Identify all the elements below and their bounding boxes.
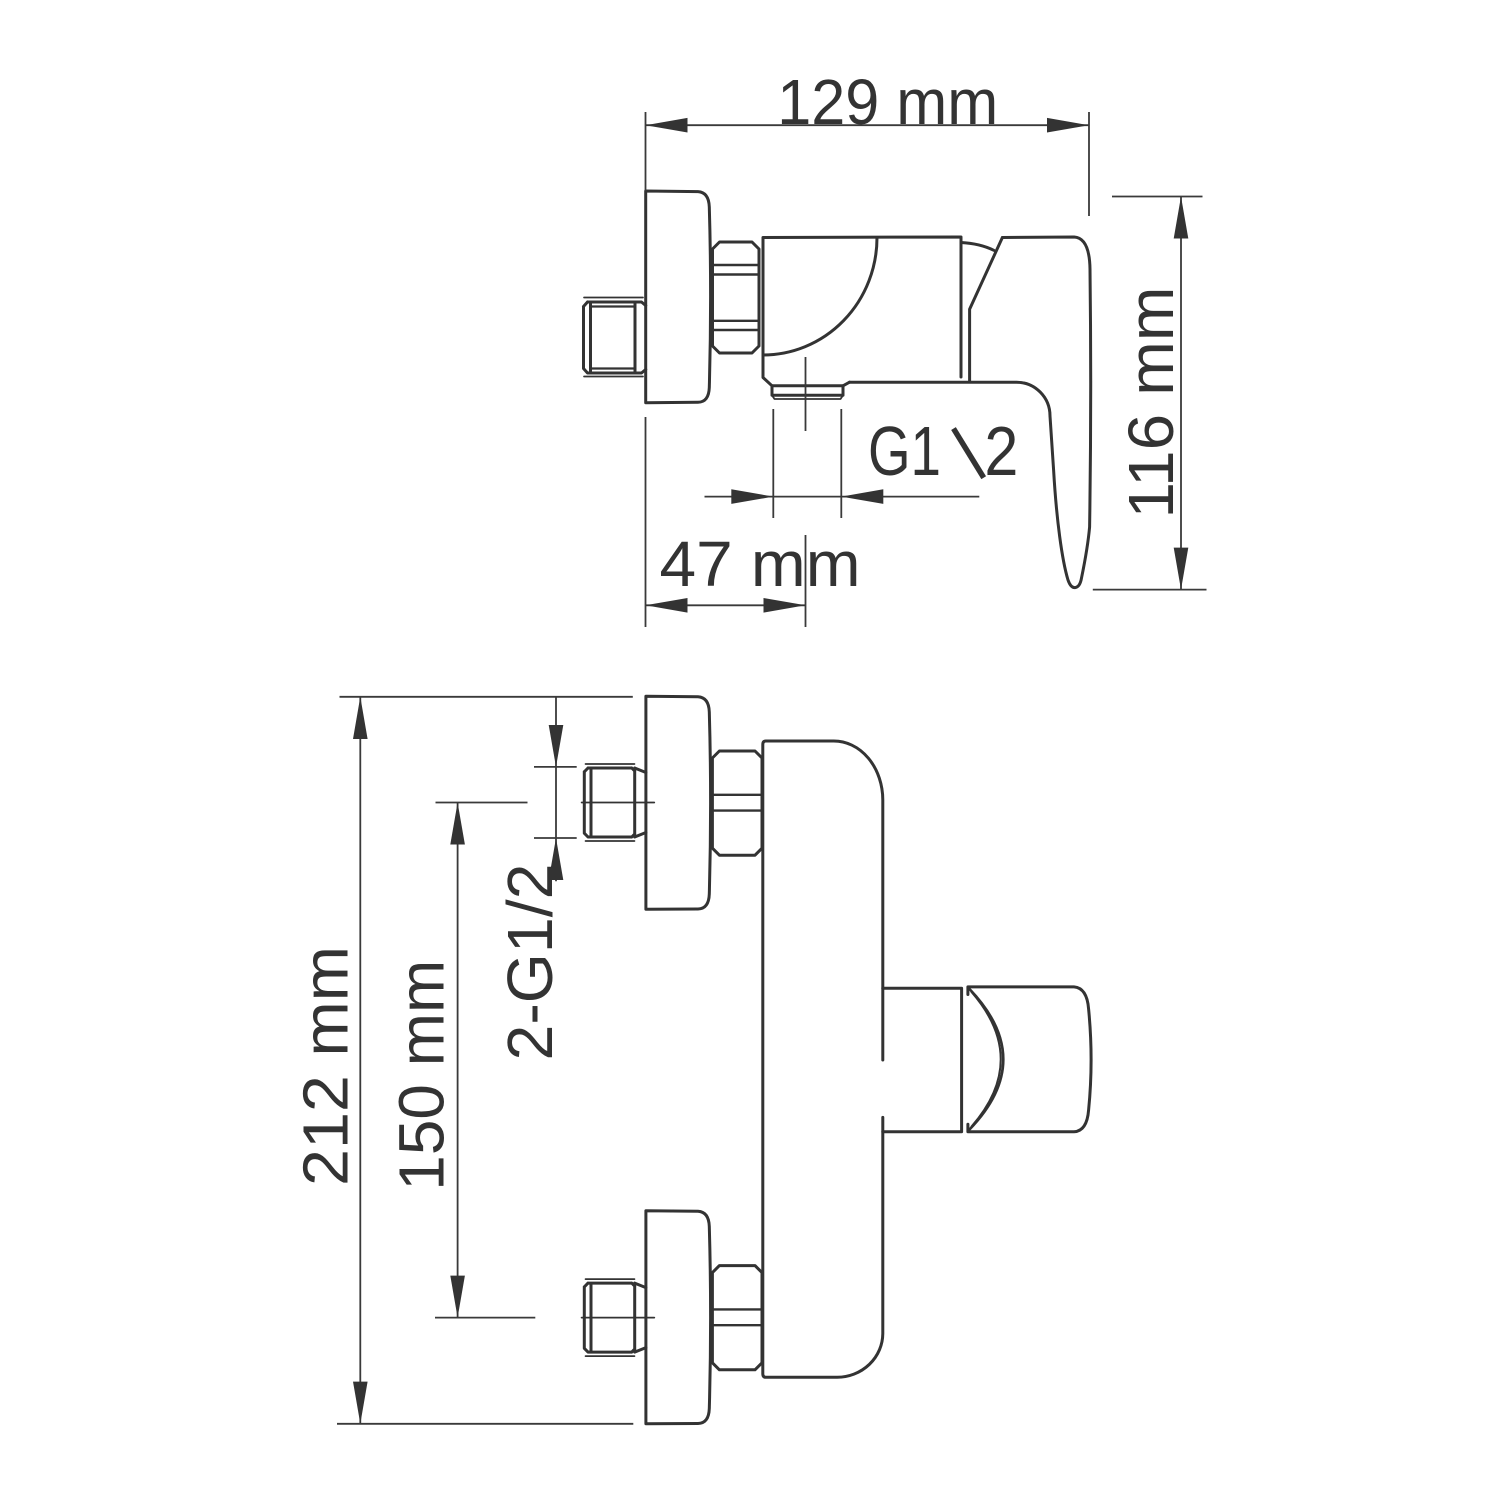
top view: body quarter arc	[763, 238, 877, 356]
bottom view: knob dome arcs	[970, 989, 1004, 1130]
arrow 2-G1/2 up	[549, 838, 564, 880]
svg-text:116 mm: 116 mm	[1115, 287, 1187, 519]
dim 116mm line	[1180, 197, 1182, 590]
dim 116mm extension lines	[1093, 197, 1207, 590]
dim G1/2 extension lines	[773, 409, 841, 518]
arrow 150mm top	[450, 803, 465, 845]
top view: wall plate	[646, 191, 711, 403]
arrow 116mm top	[1174, 197, 1189, 239]
svg-text:47 mm: 47 mm	[660, 528, 861, 600]
arrow G1/2 pointing right	[731, 489, 773, 504]
top view: outlet crest line	[772, 395, 843, 399]
bottom view: top mounting nut	[712, 751, 762, 855]
bottom view: faucet body	[763, 741, 883, 1377]
top view: lever handle	[850, 237, 1091, 588]
arrow 129mm left	[646, 118, 688, 133]
outlet centerline	[805, 357, 807, 627]
top view: spigot thread crest lines	[584, 298, 643, 377]
bottom view: top wall flange	[646, 696, 711, 909]
dim 150mm line	[457, 803, 459, 1318]
dim 212mm line	[359, 697, 361, 1424]
dim 212mm extension lines	[337, 697, 633, 1424]
bottom view: handle knob	[968, 987, 1091, 1132]
arrow G1/2 pointing left	[841, 489, 883, 504]
svg-text:150 mm: 150 mm	[385, 960, 457, 1191]
dim 2-G1/2 line and ticks	[534, 697, 577, 882]
arrow 2-G1/2 down	[549, 725, 564, 767]
arrow 116mm bottom	[1174, 548, 1189, 590]
bottom view: bottom wall flange	[646, 1211, 711, 1424]
top view: nut face lines	[713, 265, 760, 330]
top view: valve body	[763, 237, 961, 386]
svg-text:129 mm: 129 mm	[777, 66, 998, 138]
dim 47mm extension line	[645, 417, 647, 627]
arrow 47mm left	[646, 598, 688, 613]
bottom view: bottom mounting nut	[712, 1266, 762, 1370]
arrow 47mm right	[764, 598, 806, 613]
top view: spigot thread inner lines	[591, 307, 636, 369]
arrow 212mm bottom	[353, 1382, 368, 1424]
dim 150mm extension lines	[435, 803, 535, 1318]
svg-text:212 mm: 212 mm	[290, 946, 362, 1186]
arrow 150mm bottom	[450, 1276, 465, 1318]
top view: threaded spigot hex body	[584, 302, 646, 373]
svg-text:G1: G1	[868, 412, 941, 490]
bottom view: cartridge cap line	[960, 988, 963, 1132]
arrow 212mm top	[353, 697, 368, 739]
dim 47mm line	[646, 604, 806, 606]
dim 129mm extension lines	[646, 112, 1090, 216]
arrow 129mm right	[1047, 118, 1089, 133]
svg-text:2-G1/2: 2-G1/2	[494, 864, 566, 1061]
label backslash of G1\2	[954, 429, 984, 478]
top view: cartridge neck	[961, 238, 1002, 382]
svg-text:2: 2	[984, 412, 1018, 490]
dim 129mm line	[646, 124, 1090, 126]
top view: mounting hex nut	[713, 242, 760, 353]
bottom view: top inlet spigot	[582, 764, 655, 841]
bottom view: bottom inlet spigot	[582, 1279, 655, 1356]
bottom view: handle stem	[883, 988, 961, 1132]
dim G1/2 line	[705, 496, 980, 498]
top view: bottom outlet thread	[772, 386, 843, 395]
